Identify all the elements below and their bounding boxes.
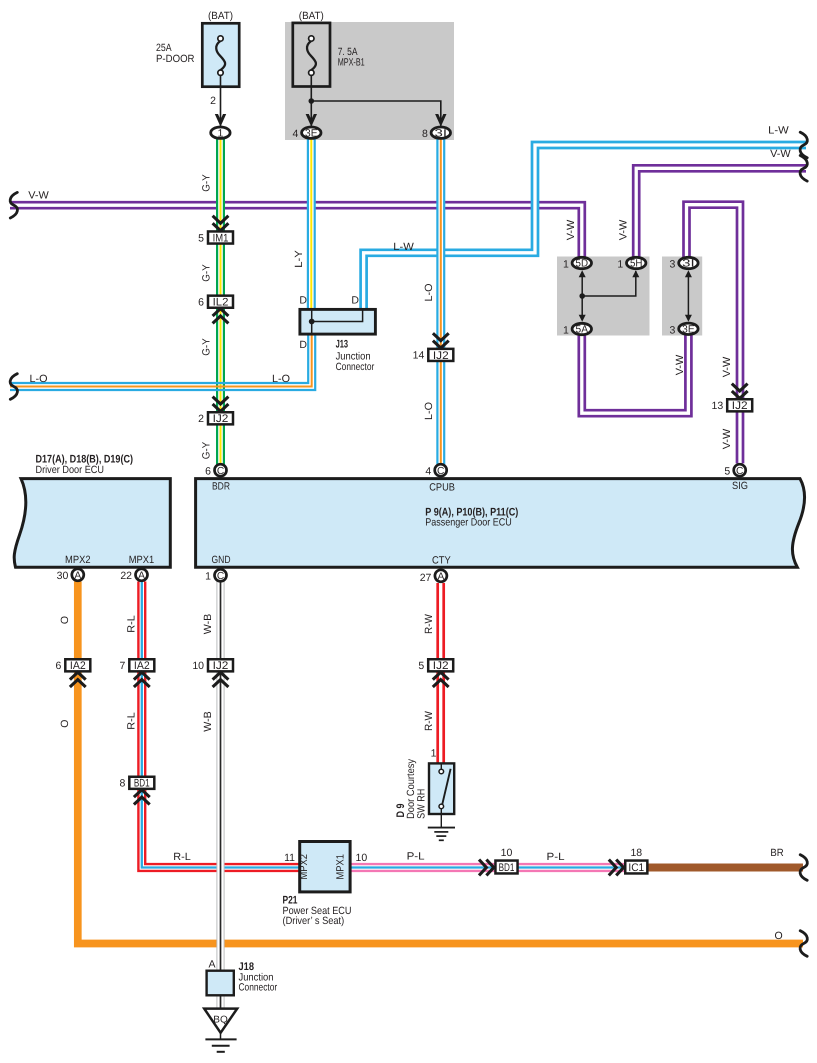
svg-text:8: 8 bbox=[422, 128, 428, 140]
svg-text:P-L: P-L bbox=[407, 851, 425, 863]
svg-text:3I: 3I bbox=[435, 127, 448, 139]
svg-text:A: A bbox=[138, 570, 145, 581]
svg-text:CPUB: CPUB bbox=[429, 481, 455, 493]
svg-text:IJ2: IJ2 bbox=[433, 350, 449, 362]
svg-text:1: 1 bbox=[617, 259, 623, 271]
svg-text:V-W: V-W bbox=[28, 190, 49, 202]
svg-text:L-O: L-O bbox=[423, 402, 435, 420]
svg-text:5: 5 bbox=[724, 465, 730, 477]
svg-text:L-O: L-O bbox=[423, 284, 435, 302]
svg-text:SW RH: SW RH bbox=[416, 789, 428, 819]
svg-text:27: 27 bbox=[420, 572, 432, 584]
svg-text:C: C bbox=[217, 571, 224, 582]
svg-text:R-L: R-L bbox=[173, 851, 191, 863]
svg-text:10: 10 bbox=[501, 847, 513, 859]
svg-text:2: 2 bbox=[210, 95, 216, 107]
svg-text:D: D bbox=[351, 294, 359, 306]
svg-text:G-Y: G-Y bbox=[200, 442, 212, 460]
svg-text:3: 3 bbox=[670, 259, 676, 271]
svg-text:R-L: R-L bbox=[125, 712, 137, 730]
svg-text:R-L: R-L bbox=[125, 615, 137, 633]
svg-text:L-W: L-W bbox=[393, 241, 414, 253]
svg-text:MPX2: MPX2 bbox=[65, 554, 91, 566]
svg-text:6: 6 bbox=[198, 297, 204, 309]
svg-text:BDR: BDR bbox=[212, 480, 230, 492]
svg-text:L-O: L-O bbox=[272, 373, 290, 385]
svg-text:MPX-B1: MPX-B1 bbox=[338, 56, 365, 68]
svg-text:1: 1 bbox=[431, 747, 437, 759]
svg-text:Driver Door ECU: Driver Door ECU bbox=[36, 464, 105, 476]
svg-text:P-L: P-L bbox=[547, 851, 565, 863]
svg-text:11: 11 bbox=[284, 852, 295, 864]
svg-text:1: 1 bbox=[563, 325, 569, 337]
svg-text:1: 1 bbox=[205, 571, 211, 583]
svg-text:O: O bbox=[775, 930, 783, 942]
svg-text:G-Y: G-Y bbox=[200, 174, 212, 192]
svg-text:IJ2: IJ2 bbox=[213, 413, 229, 425]
svg-text:22: 22 bbox=[120, 570, 132, 582]
svg-text:6: 6 bbox=[55, 660, 61, 672]
svg-text:D: D bbox=[299, 294, 307, 306]
svg-text:(BAT): (BAT) bbox=[299, 10, 324, 22]
svg-text:IM1: IM1 bbox=[213, 232, 229, 244]
svg-text:(BAT): (BAT) bbox=[208, 10, 233, 22]
svg-text:BD1: BD1 bbox=[499, 862, 515, 874]
svg-text:Passenger Door ECU: Passenger Door ECU bbox=[425, 517, 512, 529]
svg-text:5: 5 bbox=[198, 232, 204, 244]
svg-text:4: 4 bbox=[425, 465, 431, 477]
svg-text:3E: 3E bbox=[305, 127, 318, 139]
svg-text:V-W: V-W bbox=[565, 220, 577, 241]
svg-text:C: C bbox=[437, 466, 444, 477]
svg-text:3: 3 bbox=[670, 324, 676, 336]
svg-text:A: A bbox=[438, 571, 445, 582]
svg-text:MPX1: MPX1 bbox=[129, 554, 155, 566]
svg-text:3I: 3I bbox=[682, 258, 695, 270]
svg-text:C: C bbox=[736, 466, 743, 477]
svg-text:SIG: SIG bbox=[732, 480, 748, 492]
svg-text:J13: J13 bbox=[336, 338, 349, 350]
svg-text:CTY: CTY bbox=[432, 554, 451, 566]
svg-text:L-O: L-O bbox=[30, 373, 48, 385]
svg-text:MPX1: MPX1 bbox=[334, 854, 346, 880]
svg-text:W-B: W-B bbox=[202, 614, 214, 635]
svg-text:BQ: BQ bbox=[213, 1015, 228, 1026]
svg-text:P-DOOR: P-DOOR bbox=[156, 53, 195, 65]
svg-text:4: 4 bbox=[292, 128, 298, 140]
svg-text:Connector: Connector bbox=[239, 982, 278, 994]
svg-text:GND: GND bbox=[212, 554, 231, 566]
svg-text:7: 7 bbox=[119, 660, 125, 672]
svg-text:V-W: V-W bbox=[674, 355, 686, 376]
svg-text:R-W: R-W bbox=[423, 711, 435, 731]
svg-text:BR: BR bbox=[770, 847, 784, 859]
svg-text:D: D bbox=[299, 339, 307, 351]
svg-text:1: 1 bbox=[563, 259, 569, 271]
svg-text:IC1: IC1 bbox=[628, 862, 644, 874]
svg-text:2: 2 bbox=[198, 413, 204, 425]
svg-text:3E: 3E bbox=[682, 324, 695, 336]
svg-text:O: O bbox=[59, 720, 71, 728]
svg-text:R-W: R-W bbox=[423, 614, 435, 634]
svg-text:V-W: V-W bbox=[721, 429, 733, 450]
svg-text:1: 1 bbox=[217, 127, 223, 139]
svg-text:O: O bbox=[59, 616, 71, 624]
svg-text:5H: 5H bbox=[630, 258, 643, 270]
svg-text:A: A bbox=[208, 959, 215, 971]
svg-text:G-Y: G-Y bbox=[200, 338, 212, 356]
svg-text:W-B: W-B bbox=[202, 711, 214, 732]
svg-text:5A: 5A bbox=[576, 324, 589, 336]
svg-text:IJ2: IJ2 bbox=[732, 400, 748, 412]
svg-text:25A: 25A bbox=[156, 42, 172, 54]
svg-text:10: 10 bbox=[356, 852, 368, 864]
svg-text:5D: 5D bbox=[576, 258, 589, 270]
svg-text:V-W: V-W bbox=[721, 357, 733, 378]
svg-text:V-W: V-W bbox=[617, 220, 629, 241]
svg-text:6: 6 bbox=[205, 465, 211, 477]
svg-text:V-W: V-W bbox=[770, 148, 791, 160]
svg-text:MPX2: MPX2 bbox=[298, 854, 310, 880]
svg-text:L-W: L-W bbox=[768, 125, 789, 137]
svg-text:L-Y: L-Y bbox=[293, 250, 305, 268]
svg-text:10: 10 bbox=[192, 660, 204, 672]
svg-text:Connector: Connector bbox=[336, 361, 375, 373]
svg-text:14: 14 bbox=[413, 350, 425, 362]
svg-text:8: 8 bbox=[119, 778, 125, 790]
svg-text:18: 18 bbox=[630, 847, 642, 859]
svg-text:(Driver’ s Seat): (Driver’ s Seat) bbox=[283, 915, 345, 927]
svg-text:5: 5 bbox=[418, 660, 424, 672]
svg-text:G-Y: G-Y bbox=[200, 264, 212, 282]
svg-text:30: 30 bbox=[57, 570, 69, 582]
svg-text:A: A bbox=[74, 570, 81, 581]
svg-text:13: 13 bbox=[712, 400, 724, 412]
svg-text:C: C bbox=[217, 466, 224, 477]
